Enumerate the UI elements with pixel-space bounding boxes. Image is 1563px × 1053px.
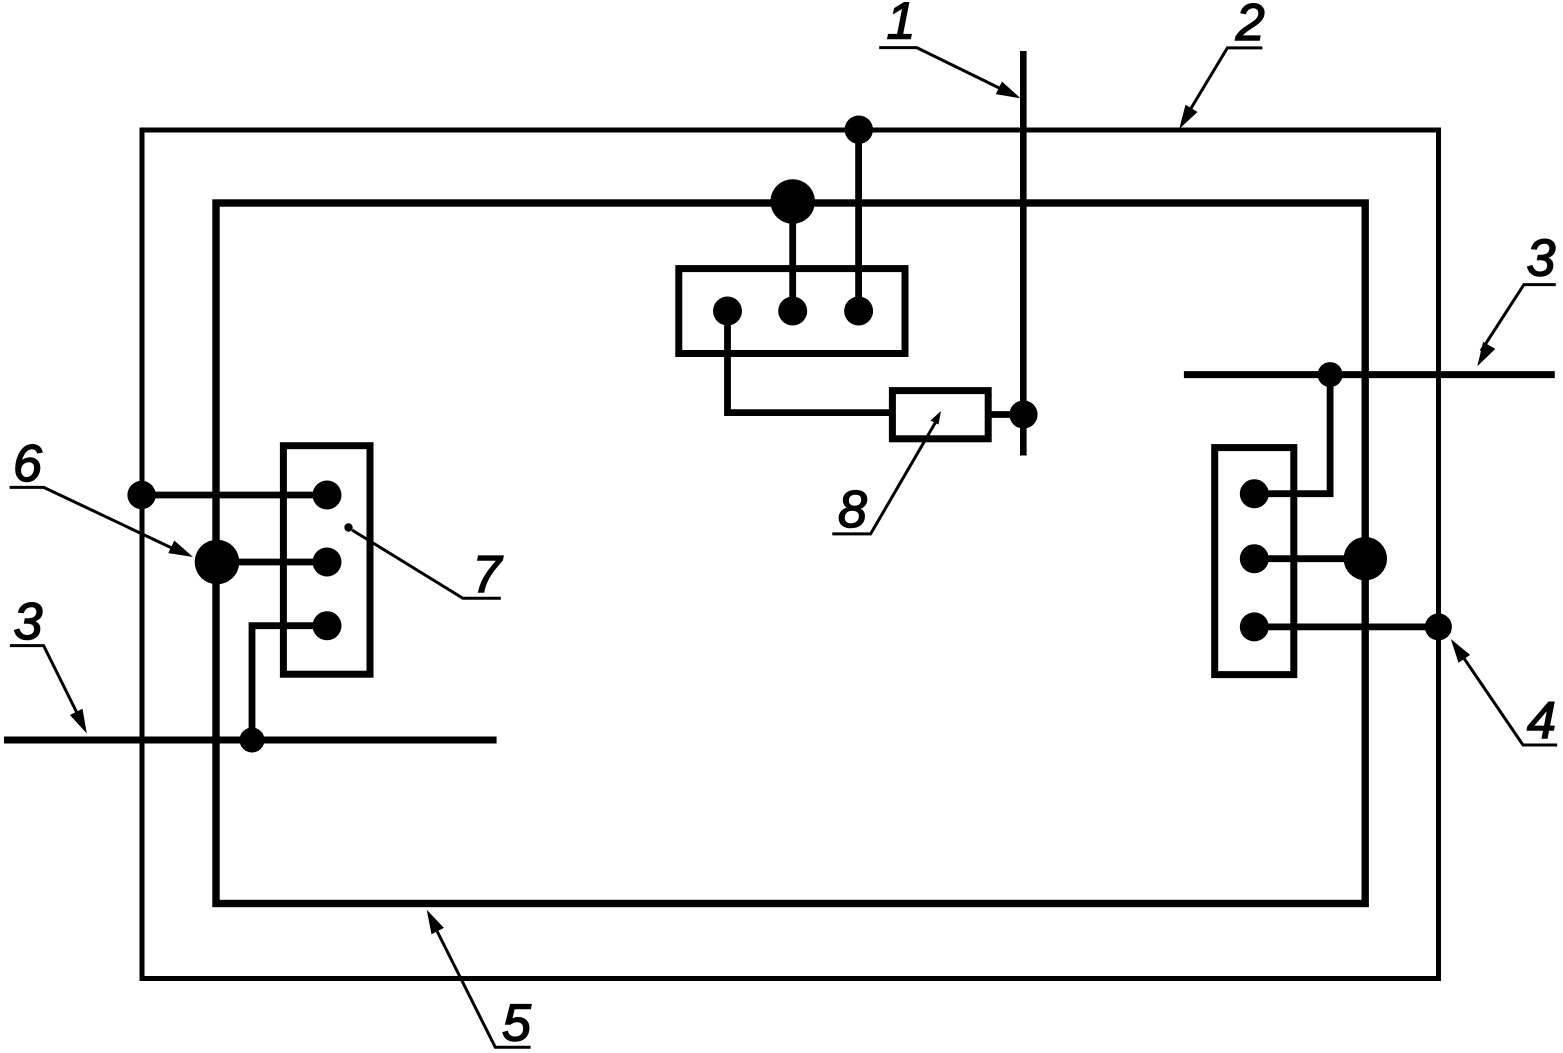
wire: right line 3 dot down to right connector pin 1 [1254, 375, 1330, 494]
right horizontal line 3 [1184, 371, 1555, 378]
right connector pin 2 [1240, 544, 1269, 573]
label 6 with leader arrow [10, 435, 193, 557]
junction dot 6 on outer frame left edge [127, 481, 155, 509]
wire: inner-frame big dot down to top block pin 2 [789, 202, 796, 312]
outer frame 2 (thin rectangle) [142, 130, 1439, 979]
svg-text:3: 3 [1527, 230, 1556, 288]
wire: outer-frame-left dot to left connector pin 1 [142, 492, 327, 499]
top block pin 1 [713, 297, 742, 326]
junction dot on outer frame top edge [845, 116, 873, 144]
right connector pin 3 [1240, 612, 1269, 641]
label 7 with leader arrow [344, 523, 503, 604]
label 2 with leader arrow [1179, 0, 1265, 129]
wire: right connector pin 3 to outer frame right edge [1254, 624, 1438, 631]
resistor 8 body [892, 391, 988, 439]
svg-text:2: 2 [1235, 0, 1265, 52]
left connector pin 1 [313, 481, 342, 510]
junction dot on right line 3 [1318, 362, 1343, 387]
label 5 with leader arrow [427, 910, 532, 1053]
left connector pin 3 [313, 611, 342, 640]
svg-text:8: 8 [838, 481, 867, 539]
svg-text:3: 3 [14, 593, 43, 651]
wire: left connector pin 3 down to left line 3 [252, 626, 327, 740]
right connector block outline [1215, 448, 1294, 675]
label 3 (top right) with leader arrow [1477, 230, 1556, 367]
right connector pin 1 [1240, 479, 1269, 508]
wire: right connector pin 2 to inner frame right edge [1254, 555, 1365, 562]
junction dot 4 on outer frame right edge [1425, 613, 1452, 640]
left horizontal line 3 [4, 737, 497, 744]
svg-text:4: 4 [1527, 692, 1556, 750]
label 4 with leader arrow [1451, 639, 1557, 750]
left connector pin 2 [313, 548, 342, 577]
label 1 with leader arrow [879, 0, 1020, 98]
wire: outer-frame dot down to top block pin 3 [855, 130, 862, 311]
label 8 with leader arrow [832, 411, 941, 539]
left connector block 7 outline [283, 446, 370, 675]
top terminal block outline [679, 269, 905, 354]
svg-text:7: 7 [473, 546, 504, 604]
wire: top block pin 1 down and right to resistor 8 [728, 311, 893, 413]
wire: resistor 8 to line 1 [988, 411, 1023, 418]
top block pin 2 [778, 297, 807, 326]
junction dot: resistor output on line 1 [1009, 400, 1037, 428]
svg-text:6: 6 [13, 435, 42, 493]
big junction dot on inner frame left edge [195, 540, 240, 585]
svg-text:1: 1 [887, 0, 916, 51]
vertical bus line 1 [1020, 51, 1027, 456]
inner frame 5 (thick rectangle) [216, 203, 1365, 904]
big junction dot on inner frame right edge [1344, 537, 1387, 580]
label 3 (bottom left) with leader arrow [10, 593, 87, 734]
wire: inner-frame-left big dot to left connector pin 2 [217, 559, 327, 566]
top block pin 3 [844, 297, 873, 326]
junction dot on left line 3 [240, 728, 265, 753]
big junction dot on inner frame top edge [770, 179, 815, 224]
svg-text:5: 5 [502, 994, 532, 1052]
